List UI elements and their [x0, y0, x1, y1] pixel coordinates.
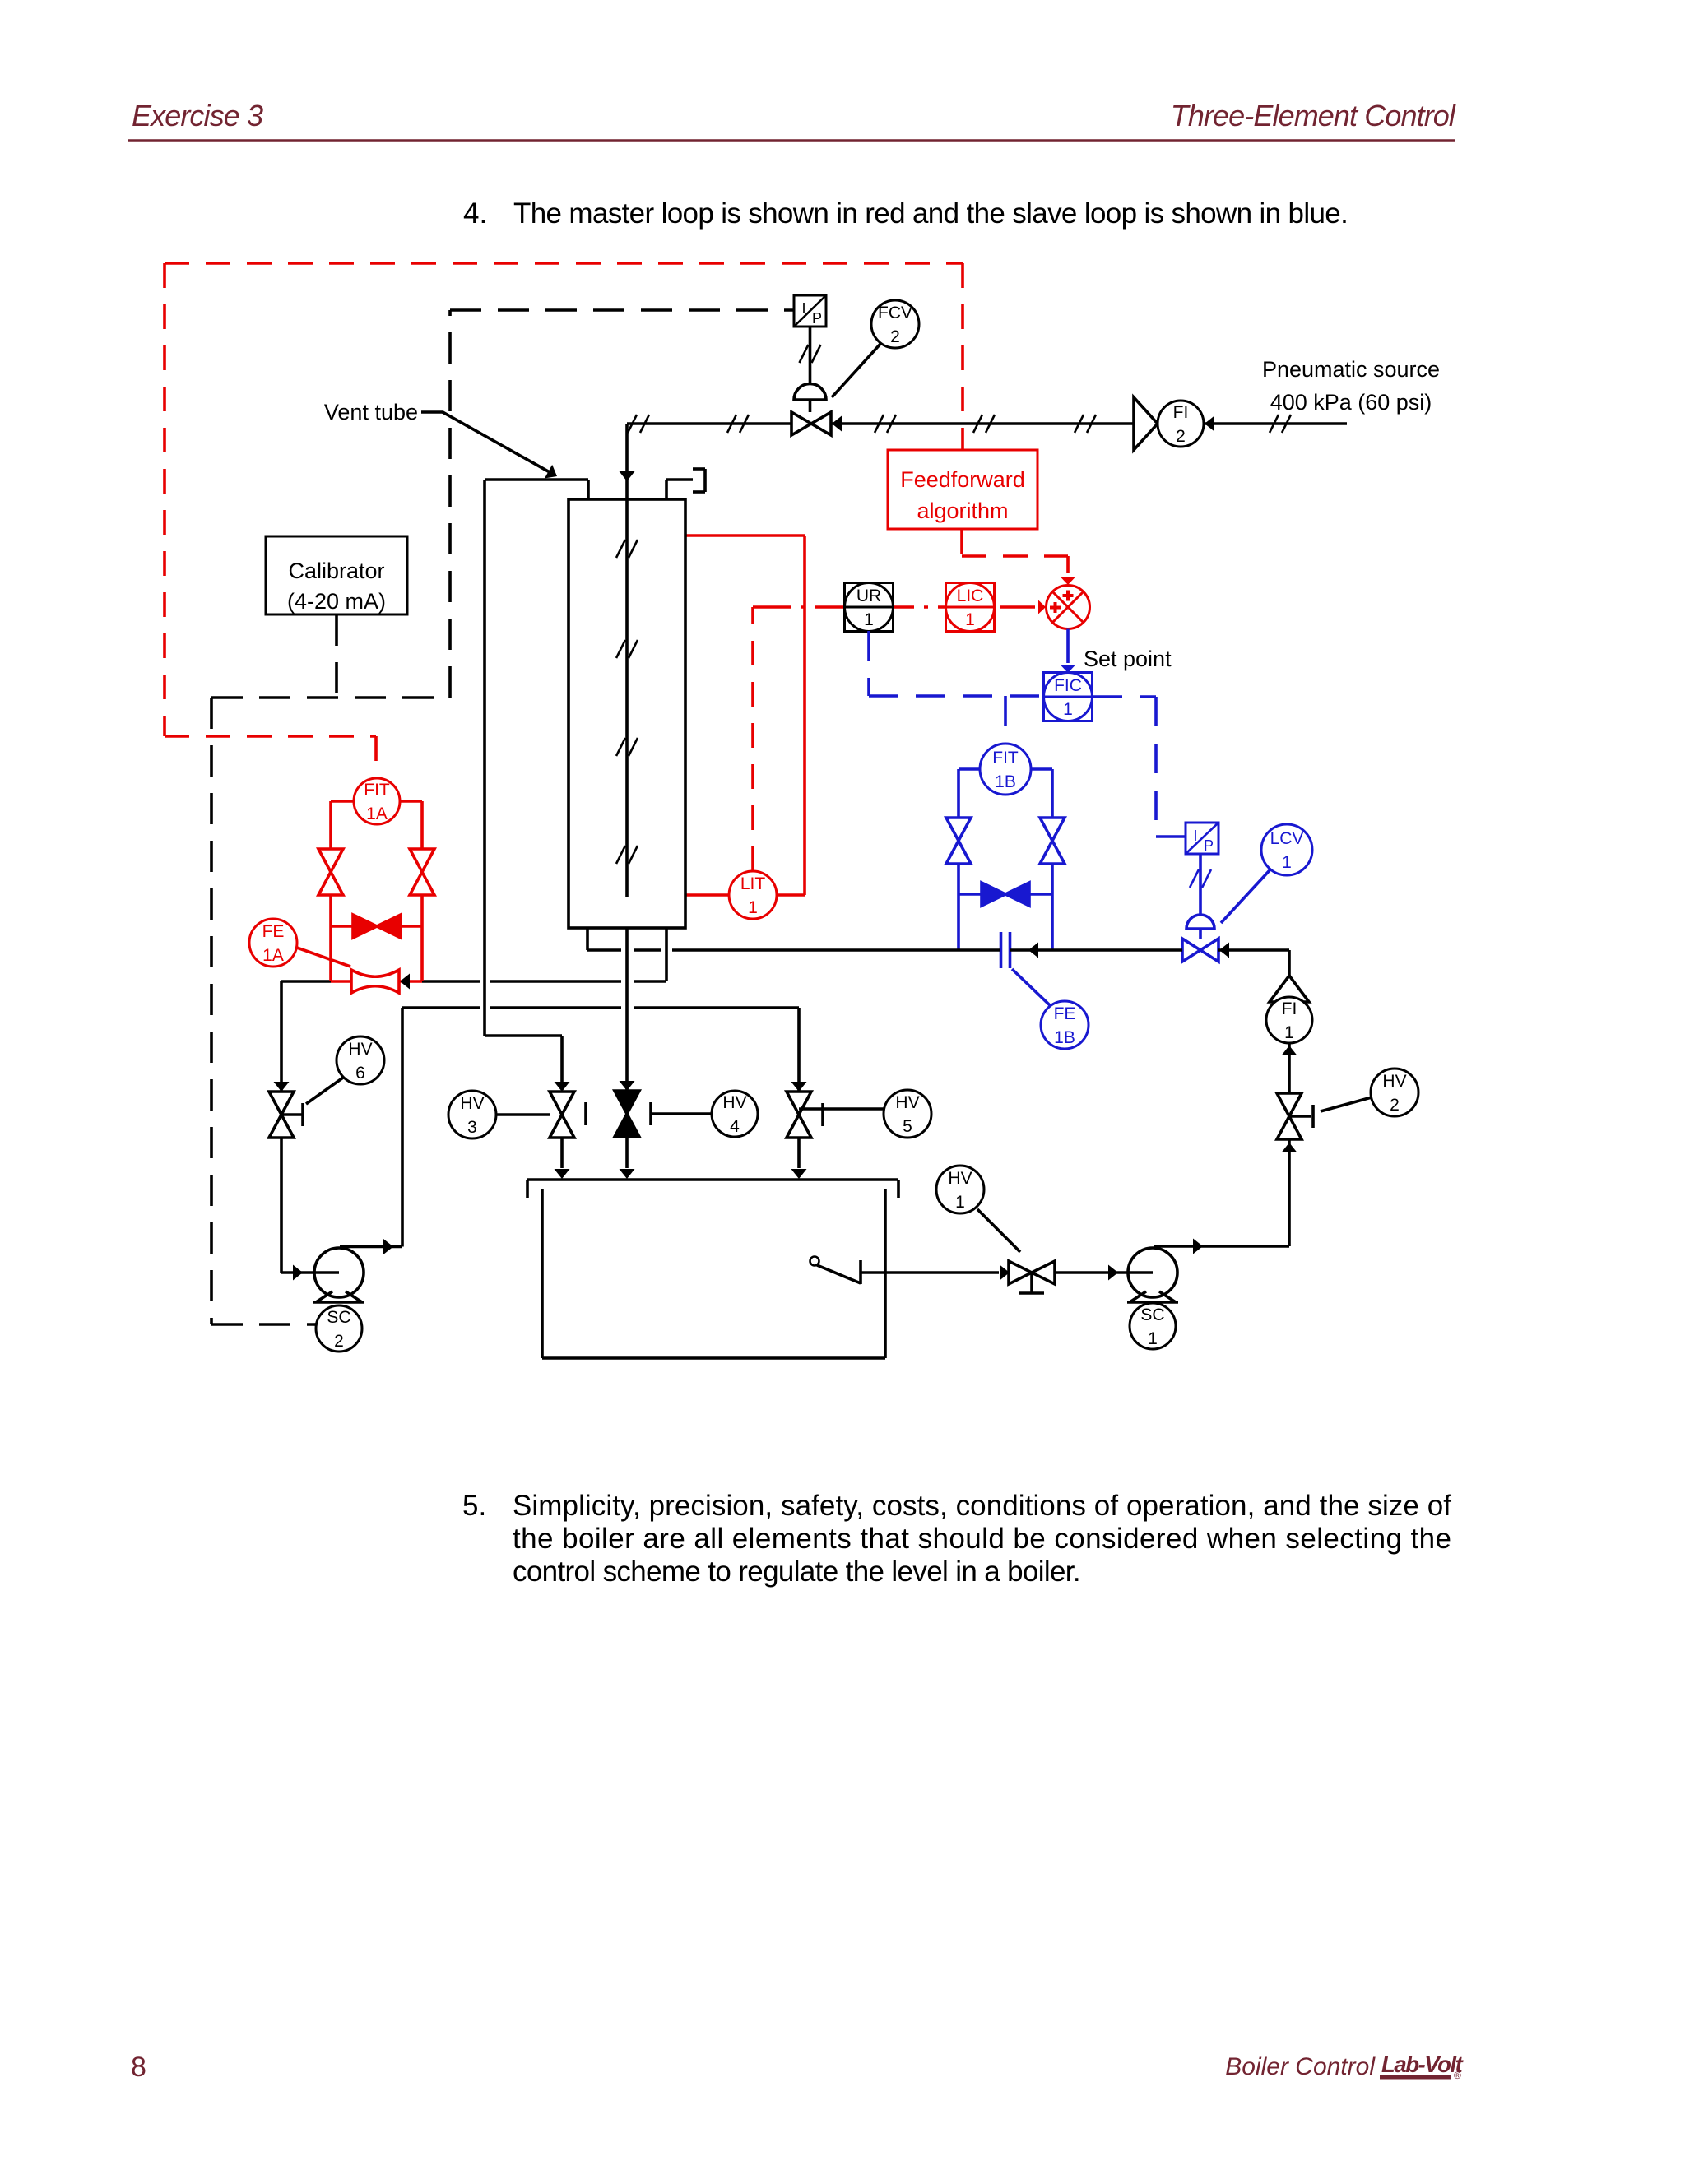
- arrow at FE1B: [1028, 943, 1038, 958]
- wire: FIT1B top left stub: [959, 767, 980, 771]
- svg-text:2: 2: [1390, 1096, 1400, 1115]
- svg-text:2: 2: [334, 1332, 344, 1351]
- HV3 tag circle: [496, 1113, 550, 1116]
- controller LIC1: [946, 583, 995, 632]
- wire: feedwater line y1155: [587, 948, 621, 952]
- I/P transducer (LCV1): [1186, 823, 1218, 854]
- wire: black dashed riser to I/P: [448, 310, 452, 698]
- wire: vent tube bottom to HV3: [485, 1034, 562, 1037]
- svg-text:Calibrator: Calibrator: [288, 559, 384, 583]
- svg-text:1: 1: [955, 1193, 965, 1212]
- valve HV6: [269, 1092, 294, 1138]
- FCV2 tag circle: [832, 343, 881, 397]
- wire: drain valve to boiler: [625, 1137, 629, 1168]
- float level switch: [810, 1257, 819, 1266]
- svg-text:FIT: FIT: [364, 781, 390, 800]
- HV6 tag circle: [306, 1078, 343, 1104]
- svg-text:1: 1: [864, 610, 874, 629]
- svg-text:Exercise 3: Exercise 3: [132, 99, 263, 132]
- wire: HV2 to FI1: [1288, 1043, 1291, 1093]
- valve HV3: [550, 1092, 574, 1138]
- svg-text:LCV: LCV: [1270, 829, 1304, 848]
- wire: FIT1B top right stub: [1031, 767, 1052, 771]
- wire: blue dashed from UR down: [867, 631, 870, 696]
- wire: HV6 branch: [280, 981, 283, 1092]
- wire: riser to HV2: [1288, 1139, 1291, 1246]
- wire: red dashed drop to FIT1A: [374, 736, 378, 778]
- actuator dome FCV2: [794, 384, 826, 401]
- wire: red dashed feedforward output: [960, 529, 963, 556]
- svg-text:HV: HV: [1382, 1072, 1406, 1091]
- wire: summer output (blue) to FIC: [1066, 629, 1070, 664]
- svg-text:The master loop is shown in re: The master loop is shown in red and the …: [513, 197, 1348, 230]
- arrow into SC1 pump: [1108, 1265, 1118, 1281]
- controller FIC1: [1044, 673, 1093, 721]
- orifice plate FE1B: [1000, 932, 1003, 968]
- arrow up into HV2: [1282, 1143, 1297, 1152]
- FIT 1B transmitter: [980, 744, 1031, 795]
- svg-text:HV: HV: [348, 1040, 372, 1059]
- LIT 1 transmitter: [729, 871, 777, 919]
- I/P transducer (FCV2): [794, 295, 826, 327]
- wire: I/P to LCV actuator: [1199, 854, 1202, 915]
- LCV1 tag circle: [1221, 869, 1270, 923]
- wire: red dashed rect top: [165, 262, 963, 265]
- svg-text:3: 3: [467, 1118, 477, 1137]
- FIT 1A transmitter: [354, 778, 400, 824]
- footer Lab-Volt logo: [1380, 2052, 1465, 2081]
- svg-text:(4-20 mA): (4-20 mA): [287, 589, 386, 614]
- svg-text:algorithm: algorithm: [917, 498, 1008, 523]
- svg-text:Feedforward: Feedforward: [900, 467, 1025, 492]
- valve drain (closed) HV4: [615, 1091, 639, 1137]
- wire: black dashed to I/P transducer: [450, 308, 794, 312]
- svg-text:Set point: Set point: [1084, 647, 1172, 671]
- tank bottom outlet left wall: [586, 928, 589, 950]
- arrow HV3 into boiler: [555, 1169, 570, 1179]
- arrow into FCV2: [832, 416, 842, 432]
- arrow into summing junction top: [1061, 577, 1075, 585]
- recorder UR1: [845, 583, 894, 632]
- svg-text:FI: FI: [1173, 403, 1189, 422]
- svg-text:FI: FI: [1282, 999, 1297, 1018]
- svg-text:1: 1: [1063, 700, 1073, 719]
- valve HV2: [1277, 1093, 1302, 1139]
- arrow into HV6: [274, 1082, 290, 1092]
- arrow drain into boiler: [620, 1169, 635, 1179]
- arrow into SC2 pump: [293, 1265, 303, 1281]
- svg-text:control scheme to regulate the: control scheme to regulate the level in …: [513, 1556, 1080, 1588]
- wire: blue dashed drop to FIT1B: [1004, 696, 1007, 744]
- svg-text:HV: HV: [460, 1094, 484, 1113]
- boiler shell: [541, 1189, 544, 1358]
- wire: red solid right drop: [803, 536, 806, 895]
- arrow SC2 outlet: [383, 1239, 393, 1254]
- header rule: [128, 139, 1455, 141]
- svg-text:5.: 5.: [462, 1490, 486, 1522]
- arrow into FIC1: [1061, 665, 1075, 673]
- arrow into HV1: [1000, 1265, 1010, 1281]
- wire: SC2 pump outlet: [340, 1245, 402, 1249]
- feedforward algorithm box: [888, 450, 1037, 529]
- wire: venturi line black right: [422, 980, 480, 983]
- pipe slash marks: [628, 415, 649, 433]
- wire: FIT1A top right stub: [400, 800, 422, 803]
- svg-text:I: I: [801, 300, 805, 317]
- wire: FIT1B right leg: [1051, 769, 1054, 950]
- wire: HV5 to boiler: [797, 1138, 801, 1168]
- svg-text:1B: 1B: [995, 772, 1016, 791]
- svg-text:P: P: [812, 310, 822, 327]
- summing junction: [1047, 586, 1090, 629]
- svg-text:1: 1: [965, 610, 975, 629]
- valve FIT1B left isolation: [946, 818, 971, 864]
- arrow into summing junction left: [1038, 600, 1046, 614]
- wire: red solid LIT right link: [777, 893, 805, 897]
- HV5 tag circle: [824, 1107, 884, 1111]
- wire: FIT1B left leg: [957, 769, 960, 950]
- dip tube slash marks: [616, 540, 638, 558]
- arrow SC1 outlet: [1193, 1239, 1203, 1254]
- wire: SC1 pump outlet: [1154, 1245, 1289, 1248]
- svg-text:1B: 1B: [1054, 1028, 1075, 1047]
- svg-text:1: 1: [748, 898, 758, 917]
- svg-text:4: 4: [730, 1117, 740, 1136]
- svg-text:®: ®: [1454, 2070, 1461, 2081]
- wire: pneumatic line middle segment: [831, 422, 1134, 425]
- svg-text:Pneumatic source: Pneumatic source: [1262, 357, 1440, 382]
- wire: red dashed bottom-left to FIT1A: [165, 735, 376, 738]
- svg-text:1A: 1A: [366, 805, 388, 823]
- svg-text:2: 2: [1176, 427, 1186, 446]
- arrow into HV5: [791, 1082, 807, 1092]
- valve HV5: [787, 1092, 811, 1138]
- svg-text:8: 8: [131, 2052, 146, 2083]
- valve FIT1B equalizer (closed): [982, 883, 1029, 906]
- speed controller SC2: [316, 1305, 362, 1352]
- wire: red dashed LIT signal up: [751, 607, 754, 871]
- wire: FIT1A equalizer line: [331, 925, 422, 928]
- svg-text:FIT: FIT: [992, 749, 1019, 767]
- dip tube from pneumatic line: [625, 424, 629, 897]
- valve LCV1: [1182, 939, 1218, 962]
- wire: I/P to actuator: [809, 327, 812, 384]
- svg-text:1: 1: [1148, 1329, 1158, 1348]
- wire: red dash-dot level signal: [753, 605, 1035, 609]
- wire: FIT1A top left stub: [331, 800, 354, 803]
- arrow at venturi outlet: [400, 974, 410, 990]
- wire: blue dashed FIC to right: [1093, 695, 1156, 698]
- wire: pneumatic line left segment: [627, 422, 791, 425]
- FE 1B tag circle: [1012, 969, 1050, 1005]
- vent tube column: [483, 480, 486, 1036]
- calibrator box: [266, 536, 407, 614]
- svg-text:FCV: FCV: [878, 304, 912, 322]
- wire: blue dashed drop to I/P (LCV1): [1154, 697, 1158, 837]
- flow element FE1A venturi: [351, 970, 399, 993]
- svg-text:Simplicity, precision, safety,: Simplicity, precision, safety, costs, co…: [513, 1490, 1451, 1522]
- svg-text:SC: SC: [1140, 1305, 1164, 1324]
- svg-text:FE: FE: [262, 922, 285, 941]
- wire: red dashed rect left: [163, 263, 166, 736]
- svg-text:Vent tube: Vent tube: [324, 400, 418, 424]
- wire: venturi line black left: [281, 980, 331, 983]
- wire: red dashed right edge into feedforward: [961, 263, 964, 450]
- arrow into LCV1: [1219, 943, 1229, 958]
- FI 1 flow indicator: [1288, 950, 1291, 977]
- valve FIT1A equalizer (closed): [353, 915, 401, 938]
- arrow into drain valve: [620, 1081, 635, 1091]
- wire: HV3 to boiler: [560, 1138, 564, 1168]
- wire: HV6 to SC2 pump: [280, 1138, 283, 1273]
- wire: FIT1A right leg: [420, 801, 424, 981]
- svg-text:Boiler Control: Boiler Control: [1225, 2053, 1376, 2080]
- svg-text:LIC: LIC: [957, 587, 984, 605]
- wire: blue dashed UR to FIC: [869, 694, 1043, 698]
- svg-text:FE: FE: [1054, 1004, 1076, 1023]
- wire: tank drain line: [625, 928, 629, 1091]
- wire: black dashed horizontal under calibrator: [211, 696, 450, 699]
- svg-text:P: P: [1204, 837, 1214, 854]
- wire: venturi line red stubs: [331, 980, 351, 983]
- arrow up into FI1: [1282, 1046, 1297, 1055]
- svg-text:Lab-Volt: Lab-Volt: [1381, 2052, 1465, 2077]
- wire: pneumatic line right segment: [1204, 422, 1347, 425]
- wire: red solid LIT left link: [685, 893, 729, 897]
- svg-text:1A: 1A: [262, 946, 284, 965]
- wire: HV1 to SC1 pump: [1055, 1271, 1128, 1274]
- valve FIT1B right isolation: [1040, 818, 1065, 864]
- valve FIT1A left isolation: [318, 849, 343, 895]
- valve FIT1A right isolation: [410, 849, 434, 895]
- valve FCV2: [791, 412, 831, 435]
- svg-text:400 kPa (60 psi): 400 kPa (60 psi): [1270, 390, 1432, 415]
- vent tube leader arrow: [421, 410, 443, 414]
- arrow into HV3: [555, 1082, 570, 1092]
- svg-text:HV: HV: [722, 1093, 746, 1112]
- wire: SC2 discharge line: [402, 1006, 480, 1009]
- wire: FIT1B equalizer line: [959, 893, 1052, 896]
- svg-text:UR: UR: [856, 587, 881, 605]
- svg-text:the boiler are all elements th: the boiler are all elements that should …: [513, 1523, 1451, 1555]
- HV2 tag circle: [1321, 1097, 1372, 1111]
- valve HV1: [1009, 1261, 1055, 1284]
- pump SC2: [314, 1248, 364, 1297]
- svg-text:5: 5: [903, 1117, 912, 1136]
- svg-text:LIT: LIT: [740, 874, 766, 893]
- actuator dome LCV1: [1186, 915, 1214, 929]
- wire: calibrator drop (black dashed): [335, 614, 338, 698]
- svg-text:HV: HV: [948, 1169, 972, 1188]
- boiler top lid: [527, 1178, 898, 1181]
- arrow into tank top: [620, 471, 635, 481]
- arrow into FI2: [1205, 416, 1214, 432]
- HV1 tag circle: [977, 1209, 1020, 1252]
- wire: black dashed bottom to SC2: [211, 1323, 316, 1326]
- svg-text:FIC: FIC: [1054, 676, 1082, 695]
- pump SC1: [1128, 1248, 1177, 1297]
- svg-text:2: 2: [890, 327, 900, 346]
- svg-text:Three-Element Control: Three-Element Control: [1171, 99, 1456, 132]
- svg-text:4.: 4.: [463, 197, 487, 230]
- wire: FIT1A left leg: [329, 801, 332, 981]
- wire: boiler outlet to HV1: [861, 1271, 999, 1274]
- svg-text:1: 1: [1284, 1023, 1294, 1042]
- svg-text:HV: HV: [895, 1093, 919, 1112]
- svg-text:I: I: [1193, 828, 1197, 844]
- svg-text:1: 1: [1282, 853, 1292, 872]
- tank overflow outlet: [665, 480, 668, 499]
- arrow HV5 into boiler: [791, 1169, 807, 1179]
- speed controller SC1: [1130, 1303, 1176, 1349]
- wire: black dashed left leg down to SC2: [210, 698, 213, 1324]
- tank bottom outlet right wall: [665, 928, 668, 981]
- FI 2 flow indicator: [1134, 397, 1158, 450]
- FE 1A tag circle: [295, 947, 350, 967]
- wire: blue link to I/P: [1156, 835, 1186, 838]
- HV4 tag circle: [651, 1112, 712, 1115]
- svg-text:6: 6: [355, 1064, 365, 1083]
- svg-text:SC: SC: [327, 1308, 350, 1327]
- wire: red solid tank tap top: [685, 534, 805, 537]
- tank (column): [569, 499, 685, 928]
